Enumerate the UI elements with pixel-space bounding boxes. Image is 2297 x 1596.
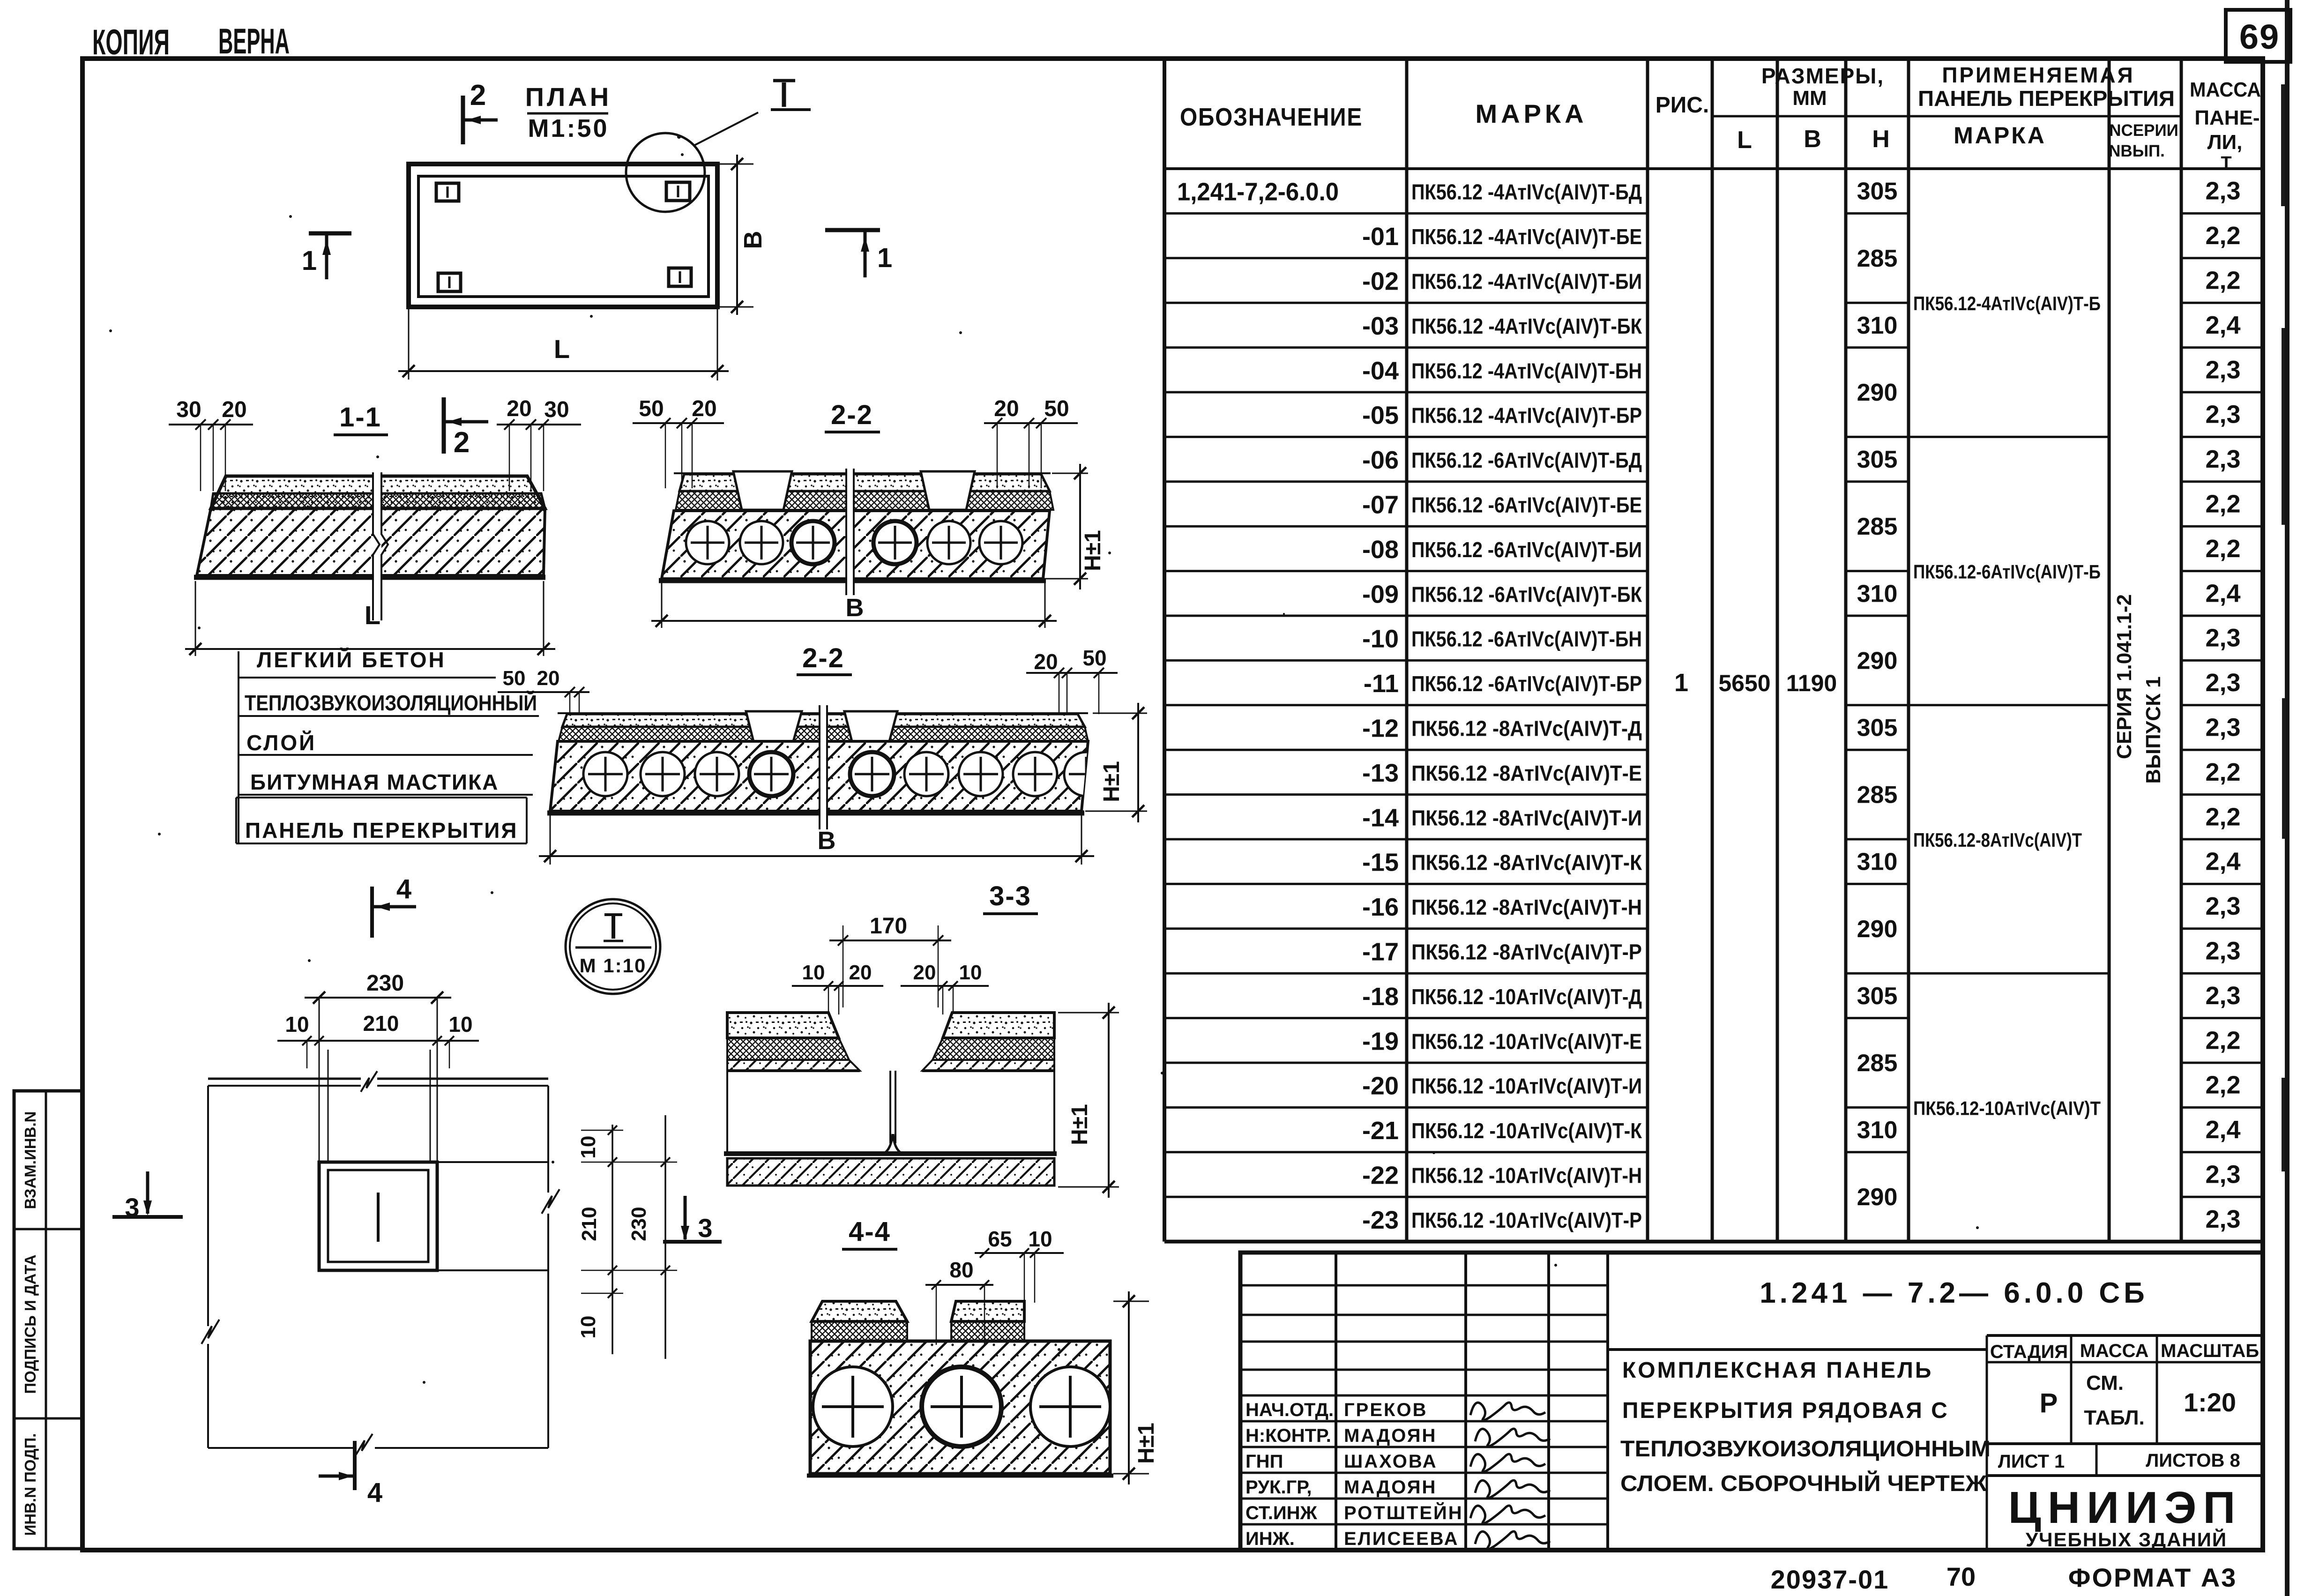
svg-text:2-2: 2-2 (802, 643, 844, 673)
section 2-2a: right dims 20 50 (984, 396, 1078, 488)
svg-text:2,2: 2,2 (2205, 490, 2240, 518)
section 2-2a label (825, 400, 880, 432)
section 2-2a: center break (846, 469, 854, 595)
table series column rotated text (2113, 594, 2165, 784)
table grid (1164, 59, 2263, 1242)
svg-text:2,4: 2,4 (2205, 1116, 2240, 1144)
svg-text:10: 10 (577, 1316, 600, 1339)
svg-text:20: 20 (222, 397, 246, 422)
svg-text:-09: -09 (1362, 580, 1399, 608)
svg-text:2,4: 2,4 (2205, 579, 2240, 607)
svg-text:2,2: 2,2 (2205, 803, 2240, 831)
plan: section mark 2 (bottom) (444, 397, 488, 459)
svg-text:2,3: 2,3 (2205, 669, 2240, 697)
svg-text:ПК56.12 -10АтIVс(АIV)Т-К: ПК56.12 -10АтIVс(АIV)Т-К (1411, 1119, 1642, 1143)
table headers (1180, 63, 2261, 173)
svg-text:1: 1 (877, 243, 892, 273)
svg-text:70: 70 (1946, 1562, 1976, 1591)
svg-text:МАСШТАБ: МАСШТАБ (2161, 1341, 2259, 1361)
section 1-1: top screed layer (211, 476, 545, 508)
table column Обозначение values (1177, 178, 1399, 1234)
table column Марка values (1411, 180, 1642, 1232)
svg-text:2,4: 2,4 (2205, 311, 2240, 339)
corner detail: panel top edge double line with break (208, 1071, 548, 1092)
svg-text:ПРИМЕНЯЕМАЯ: ПРИМЕНЯЕМАЯ (1942, 63, 2134, 87)
svg-text:ПЛАН: ПЛАН (525, 82, 612, 112)
svg-text:50: 50 (1044, 396, 1069, 421)
bottom annotations (1771, 1562, 2237, 1594)
svg-text:ПАНЕЛЬ ПЕРЕКРЫТИЯ: ПАНЕЛЬ ПЕРЕКРЫТИЯ (245, 818, 518, 843)
svg-text:ПК56.12-10АтIVс(АIV)Т: ПК56.12-10АтIVс(АIV)Т (1913, 1097, 2101, 1119)
svg-text:50: 50 (1082, 646, 1106, 670)
svg-text:РУК.ГР,: РУК.ГР, (1245, 1477, 1312, 1498)
svg-text:ПК56.12 -6АтIVс(АIV)Т-БН: ПК56.12 -6АтIVс(АIV)Т-БН (1411, 627, 1642, 651)
svg-text:-06: -06 (1362, 446, 1399, 474)
section 4-4: dims 65 10 (975, 1227, 1064, 1303)
table H values (1857, 178, 1898, 1211)
svg-text:1,241-7,2-6.0.0: 1,241-7,2-6.0.0 (1177, 178, 1339, 206)
corner detail: opening box (319, 1162, 437, 1270)
svg-text:2,3: 2,3 (2205, 1205, 2240, 1233)
svg-text:ПК56.12 -4АтIVс(АIV)Т-БН: ПК56.12 -4АтIVс(АIV)Т-БН (1411, 358, 1642, 383)
svg-text:ПК56.12 -4АтIVс(АIV)Т-БР: ПК56.12 -4АтIVс(АIV)Т-БР (1411, 403, 1642, 428)
svg-text:В: В (818, 827, 836, 855)
svg-text:2,3: 2,3 (2205, 445, 2240, 473)
svg-text:ПОДПИСЬ И ДАТА: ПОДПИСЬ И ДАТА (22, 1254, 39, 1394)
svg-text:2,4: 2,4 (2205, 848, 2240, 876)
svg-text:10: 10 (959, 961, 982, 984)
svg-text:L: L (554, 334, 570, 364)
title block designation 1.241-7.2-6.0.0 СБ (1608, 1277, 2148, 1350)
svg-text:КОМПЛЕКСНАЯ ПАНЕЛЬ: КОМПЛЕКСНАЯ ПАНЕЛЬ (1622, 1358, 1933, 1383)
svg-text:БИТУМНАЯ МАСТИКА: БИТУМНАЯ МАСТИКА (250, 770, 499, 794)
section 1-1: L dimension (185, 581, 555, 656)
plan: anchor loop top-left (436, 183, 459, 201)
svg-text:20: 20 (1034, 649, 1058, 674)
section 3-3: dim 170 (829, 914, 951, 1007)
svg-text:1:20: 1:20 (2184, 1387, 2236, 1417)
svg-text:20: 20 (913, 961, 936, 984)
svg-text:ПК56.12 -8АтIVс(АIV)Т-И: ПК56.12 -8АтIVс(АIV)Т-И (1411, 805, 1642, 830)
svg-text:2,3: 2,3 (2205, 982, 2240, 1010)
svg-text:ПК56.12 -8АтIVс(АIV)Т-Е: ПК56.12 -8АтIVс(АIV)Т-Е (1411, 761, 1642, 785)
svg-text:СТАДИЯ: СТАДИЯ (1990, 1342, 2068, 1362)
section 4-4: screed blocks (812, 1301, 1024, 1341)
section 2-2a: panel band with cores (659, 511, 1050, 581)
svg-text:СТ.ИНЖ: СТ.ИНЖ (1245, 1503, 1318, 1523)
left margin stamp boxes (14, 1091, 82, 1549)
svg-text:30: 30 (176, 397, 201, 422)
svg-text:ПК56.12 -10АтIVс(АIV)Т-Е: ПК56.12 -10АтIVс(АIV)Т-Е (1411, 1029, 1642, 1053)
section 2-2a: H dimension (1046, 464, 1105, 589)
svg-text:ПАНЕ-: ПАНЕ- (2194, 106, 2260, 129)
svg-text:20937-01: 20937-01 (1771, 1565, 1889, 1594)
svg-text:ПЕРЕКРЫТИЯ РЯДОВАЯ С: ПЕРЕКРЫТИЯ РЯДОВАЯ С (1622, 1398, 1949, 1423)
title block institute name (2008, 1483, 2242, 1551)
svg-text:2,2: 2,2 (2205, 267, 2240, 295)
corner detail: dim 230 (top) (305, 971, 451, 1004)
svg-text:305: 305 (1857, 983, 1898, 1010)
svg-text:ЕЛИСЕЕВА: ЕЛИСЕЕВА (1344, 1529, 1459, 1549)
svg-text:30: 30 (544, 397, 569, 422)
title block left grid (1240, 1253, 1608, 1550)
section 2-2a: top line and screed band with joint notches (674, 471, 1053, 510)
section 4-4: H dimension (1113, 1291, 1159, 1484)
svg-text:-11: -11 (1364, 670, 1399, 698)
title block stage/mass/scale grid (1987, 1335, 2263, 1550)
svg-text:ПК56.12 -10АтIVс(АIV)Т-И: ПК56.12 -10АтIVс(АIV)Т-И (1411, 1074, 1642, 1098)
svg-text:В: В (739, 231, 767, 249)
svg-text:СЕРИЯ 1.041.1-2: СЕРИЯ 1.041.1-2 (2113, 594, 2136, 759)
svg-text:NСЕРИИ: NСЕРИИ (2109, 121, 2178, 140)
svg-text:2,3: 2,3 (2205, 624, 2240, 652)
corner detail: right rotated dims 10 210 230 10 (577, 1115, 677, 1359)
svg-text:ПК56.12-6АтIVс(АIV)Т-Б: ПК56.12-6АтIVс(АIV)Т-Б (1913, 561, 2101, 583)
svg-text:10: 10 (577, 1136, 600, 1159)
svg-text:2,2: 2,2 (2205, 222, 2240, 250)
svg-text:285: 285 (1857, 245, 1898, 272)
svg-text:2,3: 2,3 (2205, 892, 2240, 920)
svg-text:-14: -14 (1362, 804, 1399, 832)
svg-text:Н±1: Н±1 (1067, 1104, 1092, 1145)
svg-text:МАРКА: МАРКА (1954, 122, 2046, 149)
title block signatures (1470, 1402, 1550, 1549)
svg-text:210: 210 (578, 1207, 601, 1241)
svg-text:ПК56.12-4АтIVс(АIV)Т-Б: ПК56.12-4АтIVс(АIV)Т-Б (1913, 292, 2101, 314)
svg-text:ПК56.12 -6АтIVс(АIV)Т-БК: ПК56.12 -6АтIVс(АIV)Т-БК (1411, 582, 1642, 606)
svg-text:НАЧ.ОТД.: НАЧ.ОТД. (1245, 1400, 1334, 1420)
svg-text:СЛОЙ: СЛОЙ (246, 731, 316, 755)
svg-text:РАЗМЕРЫ,: РАЗМЕРЫ, (1761, 64, 1884, 88)
section 1-1: insulation layer (211, 493, 545, 508)
corner detail: opening channel verticals (319, 998, 437, 1162)
svg-text:Н: Н (1872, 126, 1890, 153)
svg-text:ПК56.12 -6АтIVс(АIV)Т-БР: ПК56.12 -6АтIVс(АIV)Т-БР (1411, 671, 1642, 696)
svg-text:-21: -21 (1362, 1117, 1399, 1145)
section 3-3: H dimension (1058, 1003, 1119, 1198)
svg-text:305: 305 (1857, 446, 1898, 473)
svg-text:2,3: 2,3 (2205, 714, 2240, 742)
svg-text:L: L (365, 600, 380, 630)
svg-text:ПК56.12 -6АтIVс(АIV)Т-БЕ: ПК56.12 -6АтIVс(АIV)Т-БЕ (1411, 493, 1642, 517)
svg-text:210: 210 (363, 1011, 399, 1036)
svg-text:ПК56.12 -4АтIVс(АIV)Т-БИ: ПК56.12 -4АтIVс(АIV)Т-БИ (1411, 269, 1642, 294)
section 1-1: right dims 20 30 (497, 396, 581, 491)
detail badge circle I M1:10 (566, 899, 660, 994)
svg-text:3-3: 3-3 (989, 881, 1031, 911)
title block outer box (1240, 1253, 2263, 1550)
svg-text:ШАХОВА: ШАХОВА (1344, 1451, 1438, 1472)
svg-text:МАССА: МАССА (2190, 78, 2261, 101)
svg-text:ПК56.12 -8АтIVс(АIV)Т-Р: ПК56.12 -8АтIVс(АIV)Т-Р (1411, 940, 1642, 964)
svg-text:2: 2 (470, 79, 486, 112)
svg-text:1190: 1190 (1786, 670, 1837, 696)
svg-text:290: 290 (1857, 1184, 1898, 1211)
svg-text:ЦНИИЭП: ЦНИИЭП (2008, 1483, 2242, 1533)
title block names (1245, 1400, 1463, 1549)
title block drawing title (1620, 1358, 1991, 1496)
svg-text:4-4: 4-4 (849, 1216, 891, 1247)
svg-text:СЛОЕМ. СБОРОЧНЫЙ ЧЕРТЕЖ: СЛОЕМ. СБОРОЧНЫЙ ЧЕРТЕЖ (1620, 1470, 1987, 1496)
svg-text:-17: -17 (1362, 938, 1399, 966)
svg-text:20: 20 (507, 396, 531, 421)
table applied-panel marks (merged) (1913, 292, 2101, 1119)
svg-text:МАДОЯН: МАДОЯН (1344, 1425, 1437, 1446)
section 3-3 label (983, 881, 1038, 914)
svg-text:ПК56.12 -10АтIVс(АIV)Т-Н: ПК56.12 -10АтIVс(АIV)Т-Н (1411, 1163, 1642, 1188)
layer legend leader lines and labels (236, 648, 539, 843)
svg-text:В: В (846, 594, 864, 622)
svg-text:2: 2 (454, 426, 470, 459)
plan: anchor loop bottom-right (669, 268, 691, 286)
section 2-2b: center break (820, 705, 827, 829)
section 3-3: panel body (uncut) (724, 1071, 1057, 1154)
svg-text:-07: -07 (1362, 491, 1399, 519)
svg-text:-10: -10 (1362, 625, 1399, 653)
svg-text:-13: -13 (1362, 759, 1399, 787)
svg-text:10: 10 (448, 1012, 472, 1037)
svg-text:Н±1: Н±1 (1134, 1423, 1159, 1464)
svg-text:10: 10 (285, 1012, 309, 1037)
section 2-2a: left dims 50 20 (633, 396, 724, 488)
section 2-2b: B dimension (539, 815, 1094, 865)
svg-text:-23: -23 (1362, 1206, 1399, 1234)
svg-text:NВЫП.: NВЫП. (2109, 142, 2165, 160)
svg-text:МАДОЯН: МАДОЯН (1344, 1477, 1437, 1498)
plan: panel outline (outer) (409, 164, 717, 307)
svg-text:170: 170 (870, 914, 907, 939)
svg-text:Н±1: Н±1 (1081, 530, 1105, 571)
sheet page number box 69 (2226, 10, 2290, 62)
section 4-4: panel band with 3 big cores (807, 1341, 1113, 1476)
section 2-2b: top line and screed band with notches (558, 711, 1088, 741)
plan title ПЛАН М1:50 (525, 82, 612, 142)
svg-text:285: 285 (1857, 782, 1898, 809)
svg-text:4: 4 (396, 874, 411, 904)
corner detail: panel bottom edge (208, 1434, 548, 1454)
svg-text:Т: Т (2221, 153, 2231, 173)
svg-text:80: 80 (949, 1258, 973, 1282)
svg-text:10: 10 (1028, 1227, 1052, 1251)
svg-text:ВЕРНА: ВЕРНА (218, 22, 290, 61)
svg-text:МАССА: МАССА (2080, 1341, 2149, 1361)
section 4-4: dim 80 (925, 1258, 993, 1345)
svg-text:ПК56.12 -4АтIVс(АIV)Т-БЕ: ПК56.12 -4АтIVс(АIV)Т-БЕ (1411, 224, 1642, 249)
svg-text:ПК56.12 -8АтIVс(АIV)Т-Н: ПК56.12 -8АтIVс(АIV)Т-Н (1411, 895, 1642, 919)
svg-text:230: 230 (627, 1207, 650, 1241)
plan: detail circle I with leader (626, 81, 811, 212)
svg-text:МАРКА: МАРКА (1475, 99, 1587, 128)
svg-text:ЛИСТОВ 8: ЛИСТОВ 8 (2146, 1450, 2240, 1471)
svg-text:ТАБЛ.: ТАБЛ. (2084, 1406, 2145, 1429)
svg-text:310: 310 (1857, 849, 1898, 876)
svg-text:ВЫПУСК 1: ВЫПУСК 1 (2142, 676, 2165, 783)
svg-text:ПК56.12 -4АтIVс(АIV)Т-БК: ПК56.12 -4АтIVс(АIV)Т-БК (1411, 314, 1642, 338)
section 3-3: dims 10 20 20 10 (792, 961, 989, 1014)
svg-text:2,3: 2,3 (2205, 937, 2240, 965)
svg-text:2-2: 2-2 (831, 400, 873, 430)
svg-text:2,3: 2,3 (2205, 177, 2240, 205)
svg-text:2,3: 2,3 (2205, 1161, 2240, 1189)
svg-text:ВЗАМ.ИНВ.N: ВЗАМ.ИНВ.N (22, 1111, 39, 1209)
svg-text:2,2: 2,2 (2205, 1026, 2240, 1054)
svg-text:ТЕПЛОЗВУКОИЗОЛЯЦИОННЫМ: ТЕПЛОЗВУКОИЗОЛЯЦИОННЫМ (1620, 1437, 1991, 1462)
svg-text:20: 20 (692, 396, 716, 421)
svg-text:ПК56.12 -10АтIVс(АIV)Т-Р: ПК56.12 -10АтIVс(АIV)Т-Р (1411, 1208, 1642, 1232)
svg-text:СМ.: СМ. (2086, 1372, 2124, 1395)
section 3-3: ceiling strip (727, 1158, 1054, 1186)
svg-text:69: 69 (2239, 17, 2280, 56)
svg-text:-15: -15 (1362, 849, 1399, 877)
svg-text:-19: -19 (1362, 1027, 1399, 1055)
svg-text:ПК56.12 -8АтIVс(АIV)Т-Д: ПК56.12 -8АтIVс(АIV)Т-Д (1411, 716, 1642, 741)
svg-text:285: 285 (1857, 1050, 1898, 1077)
section 2-2a: B dimension (651, 582, 1057, 628)
svg-text:1-1: 1-1 (339, 402, 381, 433)
svg-text:ПК56.12-8АтIVс(АIV)Т: ПК56.12-8АтIVс(АIV)Т (1913, 829, 2082, 851)
svg-text:ПАНЕЛЬ ПЕРЕКРЫТИЯ: ПАНЕЛЬ ПЕРЕКРЫТИЯ (1918, 86, 2175, 111)
svg-text:ММ: ММ (1792, 87, 1827, 110)
plan: section marks 1 (left and right) (302, 230, 892, 279)
corner detail: section mark 4 (bottom) (319, 1441, 382, 1508)
svg-text:ПК56.12 -6АтIVс(АIV)Т-БИ: ПК56.12 -6АтIVс(АIV)Т-БИ (1411, 537, 1642, 562)
svg-text:2,3: 2,3 (2205, 401, 2240, 429)
handwritten note Копия верна (92, 22, 290, 62)
svg-text:305: 305 (1857, 178, 1898, 205)
section 4-4 label (842, 1216, 897, 1249)
section 2-2b: H dimension (1085, 703, 1147, 822)
svg-text:ПК56.12 -6АтIVс(АIV)Т-БД: ПК56.12 -6АтIVс(АIV)Т-БД (1411, 448, 1642, 472)
svg-text:ЛИ,: ЛИ, (2208, 131, 2243, 154)
svg-text:-02: -02 (1362, 268, 1399, 296)
svg-text:Р: Р (2040, 1388, 2058, 1418)
section 1-1: panel body hatched (194, 508, 545, 577)
svg-text:-03: -03 (1362, 312, 1399, 340)
svg-text:290: 290 (1857, 916, 1898, 943)
svg-text:ЛИСТ 1: ЛИСТ 1 (1998, 1451, 2065, 1472)
svg-text:ПК56.12 -10АтIVс(АIV)Т-Д: ПК56.12 -10АтIVс(АIV)Т-Д (1411, 984, 1642, 1009)
svg-text:М1:50: М1:50 (528, 114, 609, 142)
svg-text:310: 310 (1857, 1117, 1898, 1144)
table mass values (2205, 177, 2240, 1233)
svg-text:ПК56.12 -4АтIVс(АIV)Т-БД: ПК56.12 -4АтIVс(АIV)Т-БД (1411, 180, 1642, 204)
svg-text:290: 290 (1857, 379, 1898, 406)
svg-text:L: L (1737, 127, 1752, 154)
section 2-2b: right dims 20 50 (1026, 646, 1118, 714)
svg-text:-08: -08 (1362, 536, 1399, 564)
svg-text:ФОРМАТ А3: ФОРМАТ А3 (2068, 1563, 2237, 1592)
svg-text:ГНП: ГНП (1245, 1451, 1283, 1472)
plan: L dimension (bottom) (398, 309, 729, 380)
svg-text:20: 20 (849, 961, 872, 984)
svg-text:Н:КОНТР.: Н:КОНТР. (1245, 1425, 1331, 1446)
svg-text:20: 20 (994, 396, 1019, 421)
svg-text:2,2: 2,2 (2205, 758, 2240, 786)
svg-text:1: 1 (302, 246, 317, 276)
corner detail: panel left edge (201, 1086, 219, 1448)
section 3-3: left panel top layers (727, 1013, 860, 1071)
plan: anchor loop top-right (666, 182, 690, 201)
svg-text:ИНЖ.: ИНЖ. (1245, 1529, 1295, 1549)
svg-text:-16: -16 (1362, 893, 1399, 921)
corner detail: section mark 4 (top) (372, 874, 416, 938)
section 1-1: left dims 30 20 (169, 397, 253, 491)
corner detail: section marks 3 (112, 1171, 722, 1243)
svg-text:2,2: 2,2 (2205, 1071, 2240, 1099)
svg-text:50: 50 (639, 396, 664, 421)
svg-text:4: 4 (367, 1477, 382, 1508)
svg-text:-01: -01 (1362, 223, 1399, 251)
svg-text:ИНВ.N ПОДП.: ИНВ.N ПОДП. (22, 1433, 39, 1536)
corner detail: panel right edge (542, 1086, 559, 1448)
svg-text:-20: -20 (1362, 1072, 1399, 1100)
corner detail: dims 10 210 10 (277, 1011, 479, 1068)
svg-text:В: В (1804, 126, 1821, 153)
svg-text:5650: 5650 (1718, 670, 1770, 696)
svg-text:290: 290 (1857, 647, 1898, 674)
svg-text:-12: -12 (1362, 715, 1399, 743)
plan: panel outline (inner) (418, 176, 708, 297)
svg-text:ЛЕГКИЙ БЕТОН: ЛЕГКИЙ БЕТОН (257, 648, 446, 672)
svg-text:3: 3 (698, 1213, 712, 1243)
svg-text:310: 310 (1857, 580, 1898, 607)
plan: anchor loop bottom-left (438, 273, 461, 291)
scan right edge streak (2281, 0, 2290, 1596)
svg-text:Н±1: Н±1 (1099, 761, 1124, 802)
svg-text:РИС.: РИС. (1656, 93, 1709, 118)
svg-text:1: 1 (1674, 669, 1688, 697)
section 2-2b: left dims 50 20 (498, 667, 589, 714)
section 1-1: center break line (373, 472, 388, 620)
svg-text:305: 305 (1857, 715, 1898, 742)
svg-text:ГРЕКОВ: ГРЕКОВ (1344, 1400, 1427, 1420)
svg-text:2,2: 2,2 (2205, 535, 2240, 563)
svg-text:-04: -04 (1362, 357, 1399, 385)
svg-text:285: 285 (1857, 513, 1898, 540)
svg-text:50: 50 (503, 667, 526, 690)
svg-text:2,3: 2,3 (2205, 356, 2240, 384)
svg-text:1.241 — 7.2— 6.0.0 СБ: 1.241 — 7.2— 6.0.0 СБ (1760, 1277, 2148, 1309)
svg-text:230: 230 (366, 971, 404, 996)
section 3-3: right panel top layers (922, 1013, 1054, 1071)
section 2-2b: panel band with 9 cores (547, 741, 1108, 813)
svg-text:ТЕПЛОЗВУКОИЗОЛЯЦИОННЫЙ: ТЕПЛОЗВУКОИЗОЛЯЦИОННЫЙ (245, 691, 537, 715)
section 2-2b label (797, 643, 852, 675)
section 1-1 label (334, 402, 388, 435)
plan: section mark 2 (top) (463, 79, 498, 144)
svg-text:65: 65 (988, 1227, 1012, 1251)
svg-text:-18: -18 (1362, 983, 1399, 1011)
svg-text:10: 10 (802, 961, 825, 984)
svg-text:310: 310 (1857, 312, 1898, 339)
corner detail: opening side lines to panel edge (437, 1162, 548, 1270)
svg-text:ПК56.12 -8АтIVс(АIV)Т-К: ПК56.12 -8АтIVс(АIV)Т-К (1411, 850, 1642, 875)
scan speckles (109, 135, 1979, 1384)
svg-text:УЧЕБНЫХ ЗДАНИЙ: УЧЕБНЫХ ЗДАНИЙ (2026, 1528, 2227, 1551)
svg-text:-05: -05 (1362, 402, 1399, 430)
plan: B dimension (right side) (717, 155, 767, 315)
svg-text:РОТШТЕЙН: РОТШТЕЙН (1344, 1502, 1463, 1523)
svg-text:ОБОЗНАЧЕНИЕ: ОБОЗНАЧЕНИЕ (1180, 103, 1363, 131)
svg-text:20: 20 (537, 667, 560, 690)
svg-text:М 1:10: М 1:10 (580, 955, 647, 977)
svg-text:-22: -22 (1362, 1162, 1399, 1190)
